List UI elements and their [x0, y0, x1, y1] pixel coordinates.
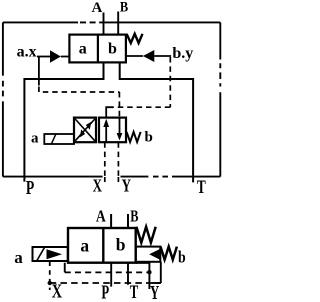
- spring W bottom valve top right: [136, 227, 155, 243]
- junction dot X: [48, 281, 52, 285]
- wire solid stub pilot valve riser: [106, 107, 113, 117]
- svg-text:a: a: [14, 248, 23, 267]
- svg-text:Y: Y: [122, 175, 132, 195]
- enclosure border right edge: [219, 22, 221, 176]
- spring W bottom pilot: [161, 247, 177, 260]
- pilot valve up arrow: [103, 119, 109, 142]
- pilot valve right cell: [99, 118, 126, 143]
- wire port A line: [103, 13, 105, 35]
- svg-text:X: X: [52, 282, 62, 302]
- svg-text:a: a: [79, 40, 87, 57]
- wire T port line bottom: [127, 263, 129, 285]
- wire dashed X port vertical bottom: [49, 262, 51, 291]
- bottom diagram port B line: [127, 214, 129, 228]
- svg-text:A: A: [92, 0, 103, 16]
- wire dashed b.y vertical: [169, 57, 171, 107]
- pilot valve solenoid diagonal: [51, 134, 56, 144]
- pilot valve down arrow: [117, 118, 123, 141]
- enclosure border top edge: [3, 21, 220, 23]
- wire dashed a.x to pilot valve: [39, 87, 120, 93]
- wire P port line bottom: [110, 263, 112, 287]
- wire a.x vertical drop: [38, 57, 40, 86]
- wire P run: [24, 62, 103, 181]
- svg-text:X: X: [93, 175, 103, 195]
- svg-text:b: b: [145, 129, 153, 145]
- enclosure border bottom edge: [3, 176, 220, 178]
- bottom pilot box right: [136, 247, 161, 262]
- wire v1 stub below solenoid: [64, 263, 66, 273]
- svg-text:A: A: [96, 207, 106, 226]
- svg-text:b: b: [108, 41, 117, 58]
- wire Y port line bottom: [148, 262, 150, 289]
- svg-text:b: b: [178, 247, 186, 266]
- wire dashed X to Y run bottom: [50, 282, 161, 284]
- wire dashed X port line: [104, 142, 106, 176]
- svg-text:b: b: [116, 235, 126, 255]
- svg-text:a: a: [31, 130, 39, 146]
- bottom solenoid diagonal: [37, 248, 44, 261]
- pilot valve crossed arrows: [75, 119, 95, 141]
- pilot line a.x arrow and wire: [37, 50, 69, 62]
- bottom solenoid box: [33, 247, 68, 261]
- svg-text:b.y: b.y: [172, 45, 193, 62]
- spring W main valve: [127, 34, 143, 43]
- wire dashed b.y horizontal: [113, 106, 170, 108]
- svg-text:B: B: [130, 207, 138, 226]
- svg-text:P: P: [101, 282, 109, 302]
- enclosure border left edge: [2, 22, 4, 176]
- bottom pilot arrow left: [149, 249, 160, 260]
- main valve divider: [97, 35, 99, 63]
- pilot valve solenoid box: [44, 134, 74, 144]
- svg-text:T: T: [130, 282, 139, 302]
- bottom valve body: [68, 228, 136, 263]
- wire dashed pilot drain run: [65, 271, 148, 273]
- svg-text:Y: Y: [150, 282, 160, 302]
- wire dashed vertical into pilot valve: [118, 92, 120, 118]
- pilot line b.y arrow and wire: [126, 50, 171, 62]
- wire port B line: [117, 12, 119, 35]
- bottom valve bottom edge extension to Y: [136, 262, 150, 264]
- wire T run: [120, 62, 193, 182]
- wire riser to pilot box bottom: [160, 262, 162, 283]
- svg-text:B: B: [120, 0, 128, 16]
- bottom diagram port A line: [110, 214, 112, 228]
- pilot valve left cell: [74, 118, 96, 143]
- svg-text:a: a: [80, 235, 89, 255]
- main valve body: [69, 35, 126, 63]
- svg-text:a.x: a.x: [17, 44, 37, 61]
- bottom solenoid arrow: [47, 249, 63, 259]
- bottom valve divider: [102, 228, 104, 263]
- svg-text:T: T: [197, 177, 206, 198]
- wire dashed Y port line: [117, 142, 119, 176]
- svg-text:P: P: [26, 177, 34, 199]
- junction dot on Y line: [147, 270, 151, 274]
- spring W pilot valve: [127, 132, 141, 142]
- wire solid joint to riser: [153, 282, 161, 284]
